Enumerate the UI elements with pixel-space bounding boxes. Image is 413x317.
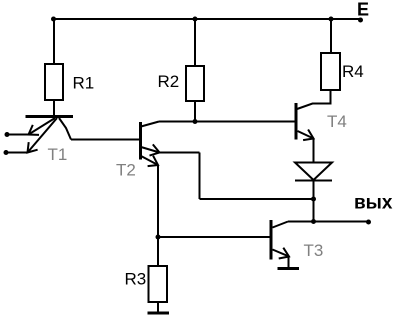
svg-text:R1: R1 [73, 74, 95, 93]
svg-text:T4: T4 [327, 112, 347, 131]
transistor T4 (top of totem pole) [296, 103, 314, 140]
wire: T2 collector / R2 / T4 base [159, 121, 295, 123]
svg-text:T3: T3 [304, 241, 324, 260]
wire: rail to R1 [53, 19, 55, 64]
terminal: E supply [358, 18, 363, 23]
wire: T2 emitter 2 down [157, 165, 159, 237]
transistor T2 (phase splitter) [141, 122, 160, 167]
resistor R2 [186, 66, 204, 101]
wire: diode to output node [313, 181, 315, 222]
wire: T4 emitter to diode [313, 139, 315, 163]
wire: T2 emitter 1 (vert) [199, 153, 201, 200]
svg-text:R3: R3 [125, 270, 147, 289]
wire: T3 emitter to ground [288, 257, 290, 269]
terminal: input 1 [5, 132, 10, 137]
wire: to diode cathode node [200, 198, 314, 200]
ground bar under R3 [148, 312, 170, 315]
resistor R3 [149, 266, 168, 302]
junction: rail / R2 [193, 17, 198, 22]
wire: T1 collector to T2 base [71, 139, 139, 141]
terminal: output [366, 220, 371, 225]
transistor T3 (bottom of totem pole) [271, 220, 289, 260]
wire: T3 base [158, 236, 270, 238]
junction: output node [311, 219, 316, 224]
wire: input 2 [6, 152, 28, 154]
wire: node to R3 [157, 237, 159, 266]
ground bar under T3 [278, 267, 300, 270]
wire: R1 to T1 base [53, 100, 55, 116]
junction: R2 / T2 collector / T4 base [193, 119, 198, 124]
wire: input 1 [7, 134, 29, 136]
diode VD (level shift) [295, 163, 332, 181]
wire: T2 emitter 1 to output node (horiz) [160, 152, 200, 154]
resistor R1 [45, 64, 63, 100]
wire: +E power rail [53, 18, 361, 20]
wire: R2 to node [194, 101, 196, 122]
wire: R3 to ground bar [157, 302, 159, 313]
wire: rail to R2 [194, 19, 196, 66]
svg-text:T2: T2 [116, 161, 136, 180]
svg-text:вых: вых [354, 193, 393, 214]
junction: rail / R1 [51, 17, 56, 22]
terminal: input 2 [4, 150, 9, 155]
svg-text:T1: T1 [48, 145, 68, 164]
svg-text:R4: R4 [342, 62, 364, 81]
wire: output line [288, 221, 369, 223]
svg-text:R2: R2 [158, 72, 180, 91]
wire: R4 to T4 collector [297, 90, 331, 109]
junction: diode cathode / emitter wire [311, 197, 316, 202]
junction: T2 emitter / R3 / T3 base [156, 235, 161, 240]
junction: rail / R4 [329, 17, 334, 22]
wire: rail to R4 [330, 19, 332, 53]
transistor T1 (multi-emitter input) [26, 117, 74, 153]
resistor R4 [321, 53, 340, 90]
svg-text:E: E [357, 0, 369, 20]
